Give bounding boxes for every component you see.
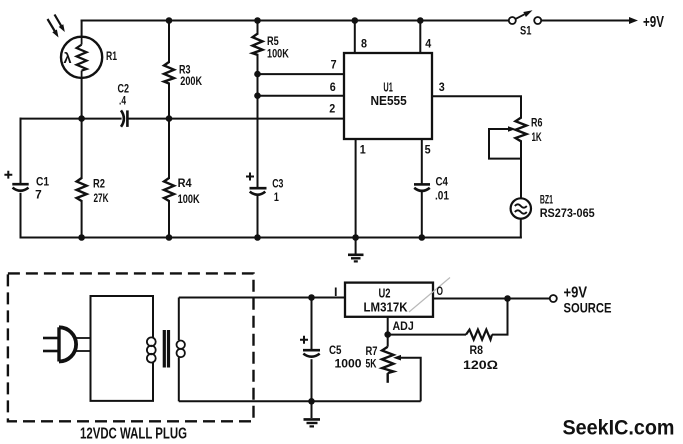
svg-text:100K: 100K (267, 47, 289, 61)
svg-text:5: 5 (425, 143, 431, 157)
svg-text:BZ1: BZ1 (540, 193, 553, 207)
svg-text:+9V: +9V (643, 14, 664, 31)
svg-text:S1: S1 (520, 23, 532, 37)
svg-text:R6: R6 (531, 116, 543, 130)
svg-text:5K: 5K (366, 357, 377, 371)
svg-text:1000: 1000 (335, 357, 362, 371)
svg-text:R2: R2 (93, 177, 105, 191)
svg-text:R4: R4 (178, 176, 192, 190)
svg-text:4: 4 (425, 37, 431, 51)
svg-text:ADJ: ADJ (393, 319, 414, 333)
svg-text:C1: C1 (36, 174, 49, 188)
svg-text:8: 8 (361, 37, 367, 51)
svg-text:C4: C4 (436, 174, 449, 188)
svg-text:7: 7 (35, 188, 42, 202)
svg-text:1K: 1K (532, 130, 542, 144)
svg-text:120Ω: 120Ω (463, 358, 498, 372)
svg-text:R1: R1 (106, 49, 117, 63)
svg-text:SeekIC.com: SeekIC.com (563, 417, 675, 440)
svg-text:U2: U2 (379, 286, 391, 301)
svg-text:6: 6 (330, 80, 336, 94)
svg-text:λ: λ (64, 51, 72, 67)
svg-text:NE555: NE555 (371, 93, 407, 108)
svg-text:I: I (334, 285, 338, 299)
svg-text:1: 1 (274, 190, 279, 204)
svg-text:.01: .01 (435, 188, 449, 202)
svg-text:1: 1 (360, 142, 366, 156)
svg-text:2: 2 (329, 102, 335, 116)
svg-text:7: 7 (331, 58, 337, 72)
svg-text:LM317K: LM317K (364, 300, 409, 315)
svg-text:12VDC WALL PLUG: 12VDC WALL PLUG (80, 426, 187, 443)
svg-text:C3: C3 (272, 177, 283, 191)
svg-text:.4: .4 (119, 94, 126, 108)
svg-text:SOURCE: SOURCE (564, 300, 612, 316)
svg-text:R8: R8 (470, 343, 484, 357)
svg-text:3: 3 (439, 80, 445, 94)
svg-text:C5: C5 (329, 343, 342, 357)
svg-text:27K: 27K (94, 191, 109, 205)
svg-text:O: O (437, 284, 444, 298)
svg-text:100K: 100K (178, 192, 200, 206)
svg-text:200K: 200K (180, 74, 202, 88)
svg-text:RS273-065: RS273-065 (540, 206, 595, 220)
